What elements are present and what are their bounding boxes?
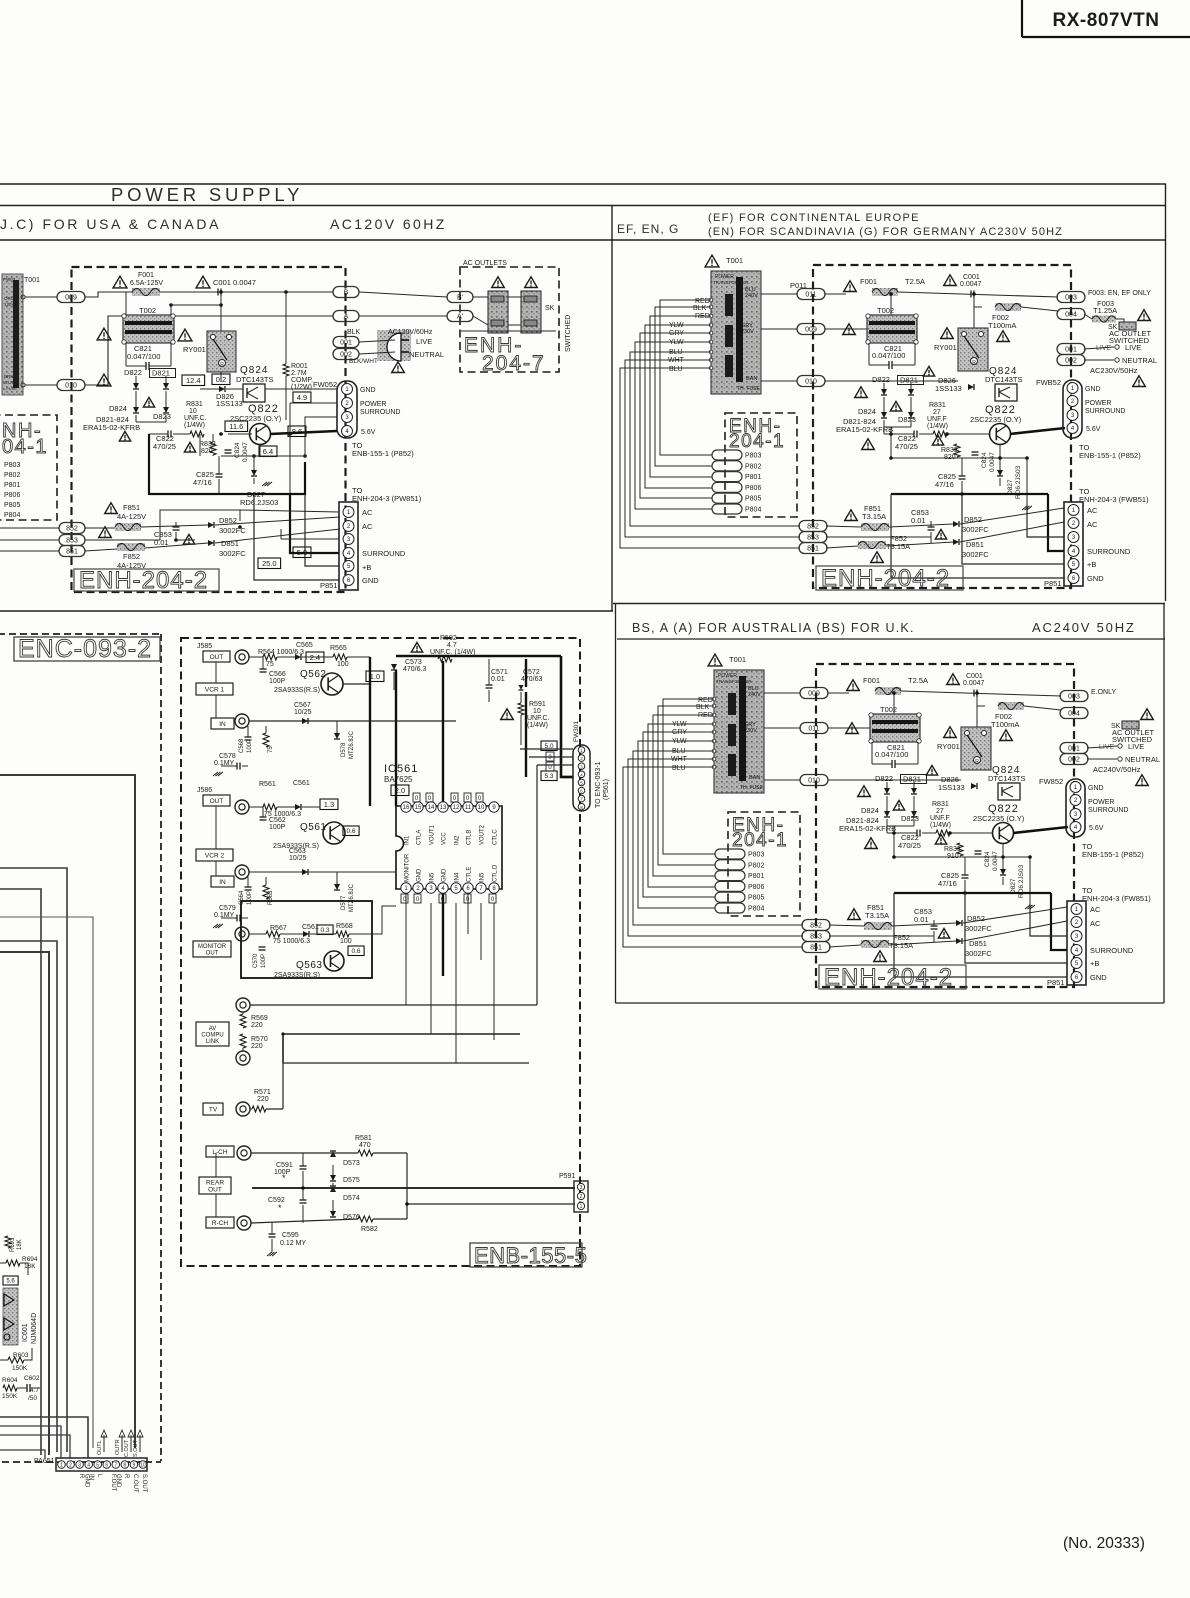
wire 010 to A bus	[85, 316, 333, 385]
BS section bottom border	[616, 1002, 1165, 1004]
capacitor C591 100P	[274, 1153, 307, 1188]
IC561 pin measured values	[401, 793, 496, 903]
signal wires from left edge turning down	[0, 775, 135, 1455]
svg-text:R568: R568	[336, 923, 353, 930]
svg-text:T100mA: T100mA	[991, 720, 1019, 729]
connector P851 (BS)	[1047, 901, 1134, 987]
svg-text:R561: R561	[259, 781, 276, 788]
zener D574	[330, 1186, 360, 1202]
svg-text:F852: F852	[123, 552, 140, 561]
svg-text:OUT: OUT	[206, 951, 219, 957]
svg-text:R563: R563	[268, 890, 274, 905]
solid junction box lower edge (USA)	[149, 434, 305, 494]
svg-text:11: 11	[465, 805, 472, 811]
module label ENH-204-2 (USA)	[74, 567, 219, 594]
BS section header text	[632, 620, 1136, 635]
ovals 003 004 001 002 (BS)	[1060, 691, 1088, 765]
transistor Q563 2SA933S	[274, 946, 364, 979]
page title POWER SUPPLY	[111, 184, 303, 205]
svg-text:C566: C566	[269, 671, 286, 678]
resistor R833 (BS)	[935, 834, 963, 860]
right page border	[1165, 184, 1167, 601]
svg-text:T2.5A: T2.5A	[908, 676, 928, 685]
svg-text:470/25: 470/25	[898, 841, 921, 850]
svg-text:D823: D823	[153, 412, 171, 421]
svg-text:P806: P806	[748, 884, 764, 891]
svg-text:C001: C001	[963, 274, 980, 281]
svg-text:47/16: 47/16	[935, 480, 954, 489]
svg-text:R604: R604	[2, 1377, 18, 1384]
note TO ENB-155-1 (EU)	[1079, 443, 1141, 460]
svg-text:C591: C591	[276, 1162, 293, 1169]
capacitor C825 47/16 (BS)	[938, 857, 969, 893]
svg-text:T3.15A: T3.15A	[886, 542, 910, 551]
capacitor C821 0.047/100 (BS)	[872, 742, 918, 768]
svg-text:10: 10	[533, 708, 541, 715]
svg-text:S.OUT: S.OUT	[133, 1440, 139, 1457]
svg-text:GND: GND	[360, 387, 376, 394]
resistor R571 220	[250, 810, 529, 1112]
svg-text:D821: D821	[152, 369, 170, 378]
warning triangle left of T002	[97, 328, 111, 340]
svg-text:0.01: 0.01	[911, 516, 926, 525]
diode C573 470/6.3	[391, 659, 426, 673]
svg-text:SWITCHED: SWITCHED	[565, 315, 572, 352]
MONITOR OUT label box	[193, 941, 231, 957]
svg-text:RY001: RY001	[934, 343, 957, 352]
svg-text:DTC143TS: DTC143TS	[985, 375, 1023, 384]
capacitor C825 47/16	[193, 456, 223, 494]
svg-text:2SC2235 (O.Y): 2SC2235 (O.Y)	[973, 814, 1025, 823]
svg-text:R581: R581	[355, 1135, 372, 1142]
resistor R592 4.7 UNF.C (1/4W)	[411, 635, 475, 662]
fuse F851 T3.15A (EU)	[845, 504, 889, 531]
svg-text:16: 16	[403, 805, 410, 811]
wires Q822 to FW052	[200, 389, 337, 494]
svg-text:004: 004	[1065, 312, 1077, 319]
svg-text:27: 27	[933, 409, 941, 416]
svg-text:AC240V 50HZ: AC240V 50HZ	[1032, 620, 1136, 635]
resistor R604 150K and capacitor C602	[2, 1375, 40, 1402]
svg-text:0.0047: 0.0047	[242, 442, 249, 462]
resistor R591 10 UNF.C (1/4W)	[501, 701, 550, 729]
svg-text:+B: +B	[1087, 560, 1096, 569]
svg-text:AC230V/50Hz: AC230V/50Hz	[1090, 366, 1138, 375]
svg-text:4A-125V: 4A-125V	[117, 512, 146, 521]
jack TV	[236, 1102, 250, 1116]
zener D827 RD6.2JS03 (BS)	[1000, 857, 1035, 909]
sheet number (No. 20333)	[1063, 1535, 1145, 1552]
svg-text:AC240V/50Hz: AC240V/50Hz	[1093, 765, 1141, 774]
svg-text:11.6: 11.6	[229, 422, 243, 431]
svg-text:T3.15A: T3.15A	[865, 911, 889, 920]
op-amp IC601 NJM064D	[3, 1276, 38, 1345]
wires to P851 (USA)	[240, 494, 339, 580]
svg-text:0.6: 0.6	[347, 828, 356, 835]
svg-text:AC120V 60HZ: AC120V 60HZ	[330, 216, 447, 232]
svg-text:F851: F851	[123, 503, 140, 512]
transistor Q822 2SC2235 (EU)	[970, 404, 1022, 445]
module label ENC-093-2	[14, 635, 160, 663]
svg-text:(1/4W): (1/4W)	[184, 422, 205, 429]
svg-text:470/63: 470/63	[521, 676, 543, 683]
svg-text:VCC: VCC	[442, 832, 448, 845]
BS section left border	[615, 604, 617, 1004]
connector P591	[559, 1173, 588, 1212]
bottom-left horizontal wires entering page	[0, 1417, 88, 1458]
zener D575	[330, 1175, 360, 1184]
wires fuse area (USA)	[85, 510, 340, 551]
svg-text:150K: 150K	[2, 1393, 18, 1400]
svg-text:2SA933S(R.S): 2SA933S(R.S)	[274, 972, 320, 979]
capacitor C821 0.047/100 (EU)	[869, 343, 915, 369]
capacitor C822 470/25 (BS)	[887, 830, 936, 851]
svg-text:T002: T002	[880, 705, 897, 714]
svg-text:IN: IN	[219, 721, 226, 728]
svg-text:P802: P802	[748, 862, 764, 869]
svg-text:F001: F001	[863, 676, 880, 685]
capacitor C001 0.0047 (BS)	[947, 673, 985, 729]
resistor R570 220	[240, 1034, 268, 1051]
svg-text:C824: C824	[984, 851, 991, 867]
svg-text:100P: 100P	[247, 891, 253, 905]
svg-text:75: 75	[266, 661, 274, 668]
svg-text:R694: R694	[22, 1256, 38, 1263]
svg-text:DTC143TS: DTC143TS	[988, 774, 1026, 783]
svg-text:10: 10	[140, 1463, 146, 1469]
svg-text:D824: D824	[109, 404, 127, 413]
ovals B and A (USA)	[333, 287, 359, 322]
svg-text:J586: J586	[197, 787, 212, 794]
svg-text:R: R	[123, 1474, 129, 1479]
svg-text:10: 10	[478, 805, 485, 811]
svg-text:P803: P803	[748, 852, 764, 859]
svg-text:ERA15-02-KFRB: ERA15-02-KFRB	[83, 423, 140, 432]
svg-text:J.C) FOR USA & CANADA: J.C) FOR USA & CANADA	[0, 216, 221, 232]
svg-text:C602: C602	[24, 1375, 40, 1382]
svg-text:009: 009	[805, 327, 817, 334]
outlet wiring	[461, 297, 556, 331]
svg-text:ENH-204-2: ENH-204-2	[79, 567, 208, 594]
fuse F002 T100mA (EU)	[974, 303, 1058, 330]
main dashed module box (BS)	[816, 664, 1074, 987]
fuse F851 4A-125V (USA)	[105, 503, 146, 531]
svg-text:D822: D822	[124, 368, 142, 377]
jack AV COMPU LINK upper	[236, 998, 250, 1012]
T001 secondary lead wires (EU)	[620, 300, 800, 548]
module label ENH-204-7	[464, 334, 546, 375]
resistor R569 220	[240, 1012, 268, 1029]
svg-text:D573: D573	[343, 1160, 360, 1167]
resistor R694 18K	[0, 1256, 38, 1275]
transistor Q822 2SC2235 (USA)	[230, 403, 282, 445]
svg-text:UNF.C.: UNF.C.	[527, 715, 550, 722]
svg-text:75 1000/6.3: 75 1000/6.3	[273, 938, 310, 945]
svg-text:9: 9	[133, 1463, 136, 1469]
svg-text:ENH-204-2: ENH-204-2	[821, 565, 950, 592]
resistor R831 27 UNF.F (BS)	[930, 801, 951, 836]
svg-text:001: 001	[1068, 746, 1080, 753]
svg-text:P803: P803	[4, 462, 20, 469]
capacitor C824 0.0047 (EU)	[972, 452, 997, 472]
svg-text:820: 820	[201, 448, 213, 455]
svg-text:C.OUT: C.OUT	[132, 1474, 138, 1493]
transistor Q562 2SA933S	[274, 669, 370, 695]
connector J585 VCR1 OUT	[196, 643, 234, 729]
svg-text:IN: IN	[88, 1474, 94, 1480]
svg-text:2: 2	[69, 1463, 72, 1469]
wires Q822 cluster (BS)	[887, 826, 1068, 904]
svg-text:R: R	[78, 1474, 84, 1479]
resistor R603 150K	[0, 1348, 32, 1372]
svg-text:0.047/100: 0.047/100	[875, 750, 908, 759]
svg-text:+B: +B	[362, 563, 371, 572]
svg-text:150K: 150K	[12, 1365, 28, 1372]
capacitor C822 470/25	[119, 431, 190, 452]
capacitor C822 470/25 (EU)	[884, 431, 933, 452]
svg-text:220: 220	[257, 1096, 269, 1103]
svg-text:R831: R831	[929, 402, 946, 409]
ovals 852 853 851 (EU)	[799, 521, 827, 554]
svg-text:010: 010	[805, 379, 817, 386]
PA651 pin labels below	[78, 1474, 147, 1493]
svg-text:47/16: 47/16	[938, 879, 957, 888]
svg-text:P801: P801	[745, 474, 761, 481]
svg-text:UNF.F: UNF.F	[927, 416, 947, 423]
svg-text:0.6: 0.6	[352, 948, 361, 955]
VCR1 OUT row components R564 C565 R565	[249, 642, 370, 668]
capacitor C001 0.0047 (USA)	[196, 276, 256, 382]
svg-text:ENB-155-1 (P852): ENB-155-1 (P852)	[1082, 850, 1144, 859]
svg-text:VCR 2: VCR 2	[205, 852, 225, 859]
svg-text:ORG: ORG	[4, 296, 15, 301]
jack R-CH	[237, 1216, 251, 1230]
wire 011 to 003 top bus (EU)	[825, 292, 1058, 381]
svg-text:8: 8	[123, 1463, 126, 1469]
diode bridge D821-D824 (EU)	[836, 375, 924, 450]
svg-text:LIVE: LIVE	[1128, 742, 1144, 751]
svg-text:010: 010	[808, 778, 820, 785]
jack VCR1 OUT	[235, 650, 249, 664]
svg-text:D577: D577	[341, 895, 347, 910]
svg-text:IN5: IN5	[430, 872, 436, 882]
svg-text:P851: P851	[1044, 579, 1062, 588]
svg-text:R-CH: R-CH	[212, 1220, 229, 1227]
svg-text:009: 009	[65, 295, 77, 302]
header band bottom rule	[0, 239, 1166, 241]
svg-text:Q563: Q563	[296, 960, 322, 971]
transformer T002 (BS)	[846, 705, 922, 743]
svg-text:851: 851	[66, 549, 78, 556]
svg-text:REAR: REAR	[206, 1179, 224, 1186]
module label box ENH-204-1 (EU)	[725, 413, 797, 517]
IC561 top pins 16-9	[401, 802, 499, 812]
svg-text:ERA15-02-KFRB: ERA15-02-KFRB	[839, 824, 896, 833]
svg-text:ENB-155-1 (P852): ENB-155-1 (P852)	[352, 449, 414, 458]
svg-text:C571: C571	[491, 669, 508, 676]
svg-text:GND: GND	[1085, 386, 1101, 393]
svg-text:D823: D823	[898, 415, 916, 424]
svg-text:D575: D575	[343, 1177, 360, 1184]
VCR1 IN components C567 C568 R566 D578	[213, 702, 355, 776]
wires to P851 (EU)	[891, 494, 1064, 578]
capacitor C572 470/63	[519, 669, 543, 690]
svg-text:(P561): (P561)	[603, 779, 610, 800]
svg-text:F003: EN, EF ONLY: F003: EN, EF ONLY	[1088, 290, 1151, 297]
svg-text:SK: SK	[545, 305, 555, 312]
svg-text:P805: P805	[745, 496, 761, 503]
svg-text:/50: /50	[28, 1395, 37, 1402]
wire 011 to 003 top bus (BS)	[828, 691, 1061, 780]
svg-text:2SA933S(R.S): 2SA933S(R.S)	[274, 687, 320, 694]
svg-text:NEUTRAL: NEUTRAL	[409, 350, 444, 359]
svg-text:14: 14	[428, 805, 435, 811]
svg-text:011: 011	[808, 726, 819, 733]
jack AV COMPU LINK lower	[236, 1051, 250, 1065]
module label ENH-204-2 (BS)	[819, 964, 966, 991]
svg-text:1SS133: 1SS133	[216, 399, 243, 408]
connector J586 VCR2 OUT	[196, 787, 234, 887]
svg-text:GND: GND	[362, 576, 379, 585]
svg-text:002: 002	[1068, 757, 1080, 764]
svg-text:230V: 230V	[744, 728, 757, 734]
svg-text:10/25: 10/25	[289, 855, 307, 862]
svg-text:BAN: BAN	[746, 376, 757, 382]
svg-text:P591: P591	[559, 1173, 575, 1180]
connector FW301	[573, 721, 590, 811]
AC outlet labels right side (BS)	[1087, 689, 1160, 786]
diode D826 1SS133 (EU)	[923, 366, 974, 393]
svg-text:470/25: 470/25	[153, 442, 176, 451]
svg-text:P802: P802	[4, 472, 20, 479]
IC561 bottom pin labels	[405, 853, 499, 882]
svg-text:+B: +B	[1090, 959, 1099, 968]
note TO ENH-204-3 (BS)	[1082, 886, 1151, 903]
svg-text:D578: D578	[341, 742, 347, 757]
svg-text:003: 003	[1065, 295, 1077, 302]
svg-text:75: 75	[268, 746, 274, 753]
svg-text:D824: D824	[858, 407, 876, 416]
svg-text:MTZ6.8JC: MTZ6.8JC	[349, 730, 355, 759]
svg-text:R: R	[220, 362, 224, 368]
svg-text:ENC-093-2: ENC-093-2	[18, 635, 152, 663]
diode bridge D821-D824 (BS)	[839, 774, 927, 849]
zener D827 RD6.2JS03 (USA)	[240, 456, 278, 507]
svg-text:P802: P802	[745, 463, 761, 470]
svg-text:D827: D827	[1007, 479, 1014, 495]
svg-text:P851: P851	[320, 581, 338, 590]
measured value 25.0 (USA)	[258, 558, 281, 569]
svg-text:D851: D851	[966, 540, 984, 549]
svg-text:BA7625: BA7625	[384, 775, 413, 784]
fuse F001 T2.5A (EU)	[844, 277, 925, 296]
svg-text:BLK/WHT: BLK/WHT	[349, 358, 378, 365]
capacitor C853 0.01 (EU)	[911, 508, 935, 543]
svg-text:COMPU: COMPU	[201, 1032, 223, 1038]
BS section header underline	[617, 638, 1165, 640]
diode D852 3002FC (USA)	[208, 516, 246, 535]
ovals B-prime A-prime	[447, 292, 473, 322]
junction dots USA buses	[169, 290, 307, 542]
svg-text:SURROUND: SURROUND	[1087, 547, 1131, 556]
junction dots (BS)	[892, 691, 1032, 895]
svg-text:R571: R571	[254, 1089, 271, 1096]
capacitor C001 0.0047 (EU)	[944, 274, 982, 330]
ovals 852 853 851 (USA)	[0, 523, 85, 557]
svg-text:T001: T001	[24, 277, 40, 284]
capacitor C853 0.01 (BS)	[914, 907, 938, 942]
svg-text:C568: C568	[239, 738, 245, 753]
svg-text:ENH-204-3 (PW851): ENH-204-3 (PW851)	[352, 494, 422, 503]
svg-text:P801: P801	[748, 873, 764, 880]
diode D851 3002FC (USA)	[183, 534, 246, 558]
svg-text:S.OUT: S.OUT	[141, 1474, 147, 1493]
svg-text:R565: R565	[330, 645, 347, 652]
svg-text:L.FUSE: L.FUSE	[3, 386, 17, 391]
svg-text:120V: 120V	[4, 302, 15, 307]
svg-text:F001: F001	[860, 277, 877, 286]
relay RY001 (USA)	[178, 329, 236, 372]
svg-text:LINK: LINK	[206, 1039, 219, 1045]
resistor R833 820	[184, 441, 216, 455]
svg-text:470/6.3: 470/6.3	[403, 666, 426, 673]
svg-text:PA651: PA651	[34, 1458, 55, 1465]
svg-text:13: 13	[440, 805, 447, 811]
svg-text:(EN) FOR SCANDINAVIA (G): (EN) FOR SCANDINAVIA (G) FOR GERMANY AC2…	[708, 226, 1063, 238]
svg-text:MONITOR: MONITOR	[198, 944, 227, 950]
svg-text:852: 852	[66, 526, 78, 533]
svg-text:OUTR: OUTR	[115, 1439, 121, 1455]
svg-text:GND: GND	[1088, 785, 1104, 792]
bottom fuse wires (BS)	[829, 907, 1067, 947]
svg-text:CTL.D: CTL.D	[493, 864, 499, 882]
diode D851 3002FC (EU)	[953, 539, 989, 559]
svg-text:204-1: 204-1	[729, 431, 785, 452]
svg-text:W.UP: W.UP	[3, 380, 15, 385]
svg-text:MTZ6.8JC: MTZ6.8JC	[349, 883, 355, 912]
svg-text:BLU: BLU	[669, 366, 683, 373]
svg-text:SURROUND: SURROUND	[1090, 946, 1134, 955]
svg-text:ENB-155-1 (P852): ENB-155-1 (P852)	[1079, 451, 1141, 460]
measured value 0.2	[212, 374, 230, 385]
svg-text:BRN: BRN	[4, 374, 14, 379]
Europe header text	[617, 212, 1063, 238]
svg-text:240V: 240V	[748, 692, 761, 698]
svg-text:SURROUND: SURROUND	[1085, 408, 1125, 415]
svg-text:B: B	[344, 290, 349, 297]
svg-text:D574: D574	[343, 1195, 360, 1202]
svg-text:BAN: BAN	[749, 775, 760, 781]
svg-text:GND: GND	[442, 868, 448, 882]
note TO ENB-155-1 (BS)	[1082, 842, 1144, 859]
svg-text:25.0: 25.0	[262, 559, 277, 568]
svg-text:F001: F001	[138, 272, 154, 279]
fuse F001 T2.5A (BS)	[847, 676, 928, 695]
svg-text:D851: D851	[969, 939, 987, 948]
svg-text:P806: P806	[745, 485, 761, 492]
svg-text:853: 853	[66, 538, 78, 545]
svg-text:3: 3	[580, 1185, 583, 1191]
module label ENH-204-2 (EU)	[816, 565, 963, 592]
svg-text:T002: T002	[877, 306, 894, 315]
junction dots (EU)	[889, 292, 1029, 496]
svg-text:FWB52: FWB52	[1036, 378, 1061, 387]
svg-text:12.4: 12.4	[186, 376, 201, 385]
resistor R001 2.7M COMP (1/2W)	[283, 292, 313, 420]
transformer T001 (USA, clipped at left edge)	[2, 274, 40, 395]
svg-text:GND: GND	[1090, 973, 1107, 982]
svg-text:(1/4W): (1/4W)	[527, 722, 548, 729]
